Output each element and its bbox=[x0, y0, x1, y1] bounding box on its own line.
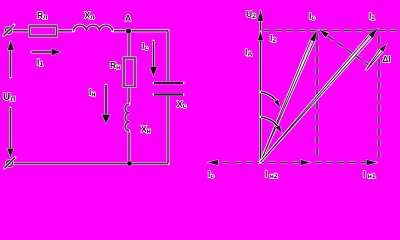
voltage arrow up bbox=[8, 41, 14, 78]
angle arc phi2 bbox=[261, 92, 281, 108]
wire halos bbox=[12, 31, 169, 164]
arrow left Ic bbox=[208, 160, 219, 166]
node A bbox=[126, 28, 131, 33]
inductor Xn bbox=[125, 104, 129, 131]
arrow right In2 bbox=[301, 160, 312, 166]
junction dot bottom bbox=[127, 161, 132, 166]
resistor Rn bbox=[124, 58, 135, 87]
svg-text:Uл: Uл bbox=[3, 92, 15, 103]
svg-text:ΔI: ΔI bbox=[383, 55, 391, 64]
arrowhead I2 on axis bbox=[258, 31, 263, 41]
arrow right In1 bbox=[367, 160, 378, 166]
terminal top-left bbox=[4, 25, 15, 36]
voltage arrow down bbox=[7, 108, 13, 158]
current arrow I1 bbox=[32, 49, 61, 56]
dashed vertical left bbox=[316, 33, 319, 158]
resistor Rl bbox=[30, 26, 57, 36]
axis vector U2 bbox=[258, 10, 264, 163]
wire load branch bbox=[128, 33, 130, 164]
inductor Xl bbox=[74, 25, 113, 31]
capacitor Xc plates bbox=[154, 83, 183, 95]
svg-text:A: A bbox=[125, 13, 131, 23]
terminal bottom-left bbox=[5, 158, 16, 169]
dashed horizontal bottom axis bbox=[211, 161, 377, 164]
vector dI (wedge) bbox=[367, 44, 388, 70]
dashed horizontal top bbox=[261, 29, 398, 32]
wire capacitor branch bbox=[167, 31, 169, 164]
current arrow In bbox=[102, 85, 110, 124]
angle arc phi1 bbox=[261, 117, 282, 133]
vector I1 (wedge) bbox=[261, 28, 379, 162]
current arrow Ic (circuit) bbox=[150, 41, 157, 77]
dashed vector Ic diagonal bbox=[319, 30, 371, 67]
wire top bbox=[12, 30, 169, 32]
dashed vertical right bbox=[378, 36, 381, 157]
wire bottom bbox=[13, 163, 169, 165]
vector I steep (wedge) bbox=[261, 30, 318, 162]
